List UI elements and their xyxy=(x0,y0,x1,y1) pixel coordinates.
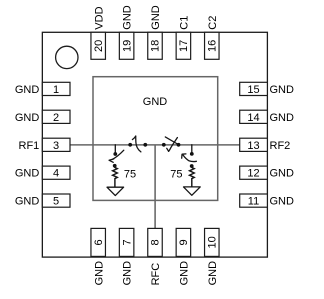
pad 15 xyxy=(240,82,268,96)
switch SW4 shunt (RF2 shunt arm) xyxy=(182,145,197,162)
resistor R2 75 ohm (right) xyxy=(190,166,195,187)
svg-text:GND: GND xyxy=(15,112,40,124)
svg-text:GND: GND xyxy=(270,196,295,208)
pad 17 xyxy=(176,32,191,59)
svg-text:20: 20 xyxy=(93,40,105,52)
pad 16 xyxy=(205,32,220,59)
svg-text:GND: GND xyxy=(15,196,40,208)
pad 8 xyxy=(148,228,163,256)
pad 3 xyxy=(42,138,70,152)
svg-text:GND: GND xyxy=(207,261,219,286)
svg-text:13: 13 xyxy=(247,140,259,152)
svg-text:19: 19 xyxy=(121,40,133,52)
node dot SW3 bottom xyxy=(113,164,117,168)
svg-text:8: 8 xyxy=(150,239,162,245)
ground GND1 (left) xyxy=(107,187,124,195)
svg-text:VDD: VDD xyxy=(93,6,105,29)
switch SW1 series (RF1 arm) xyxy=(132,136,141,152)
pad 1 xyxy=(42,82,70,96)
svg-text:16: 16 xyxy=(207,40,219,52)
node dot SW2 right xyxy=(177,143,181,147)
svg-text:12: 12 xyxy=(247,168,259,180)
svg-text:14: 14 xyxy=(247,112,259,124)
node dot SW1 right xyxy=(143,143,147,147)
svg-text:18: 18 xyxy=(150,40,162,52)
package outline U1 (QFN-20 body) xyxy=(42,32,267,257)
svg-text:7: 7 xyxy=(121,239,133,245)
svg-text:75: 75 xyxy=(170,169,182,181)
node dot SW3 top xyxy=(113,152,117,156)
svg-text:GND: GND xyxy=(150,5,162,30)
svg-text:75: 75 xyxy=(124,169,136,181)
svg-text:17: 17 xyxy=(178,40,190,52)
svg-text:GND: GND xyxy=(15,84,40,96)
svg-text:C1: C1 xyxy=(179,16,191,30)
node dot SW4 top xyxy=(190,152,194,156)
pin 1 indicator circle xyxy=(56,46,78,68)
svg-text:GND: GND xyxy=(15,168,40,180)
pad 7 xyxy=(119,228,134,256)
svg-text:GND: GND xyxy=(270,168,295,180)
pad 6 xyxy=(91,228,106,256)
node dot SW4 bottom xyxy=(190,164,194,168)
pad 5 xyxy=(42,194,70,208)
svg-text:9: 9 xyxy=(178,239,190,245)
svg-text:5: 5 xyxy=(53,196,59,208)
svg-text:6: 6 xyxy=(93,239,105,245)
pad 2 xyxy=(42,110,70,124)
wire RF1 to RF2 (horizontal net) xyxy=(70,144,240,146)
pad 11 xyxy=(240,194,268,208)
switch SW3 shunt (RF1 shunt arm) xyxy=(109,145,124,163)
svg-text:1: 1 xyxy=(53,84,59,96)
resistor R1 75 ohm (left) xyxy=(113,166,118,187)
svg-text:RFC: RFC xyxy=(150,263,162,286)
switch SW2 series (RF2 arm) xyxy=(165,137,178,151)
node dot SW2 left xyxy=(162,143,166,147)
svg-text:GND: GND xyxy=(122,5,134,30)
svg-text:4: 4 xyxy=(53,168,59,180)
svg-text:3: 3 xyxy=(53,140,59,152)
pad 4 xyxy=(42,166,70,180)
pad 9 xyxy=(176,228,191,256)
svg-text:GND: GND xyxy=(270,84,295,96)
svg-text:GND: GND xyxy=(122,261,134,286)
svg-text:11: 11 xyxy=(248,196,259,208)
svg-text:15: 15 xyxy=(247,84,259,96)
svg-text:C2: C2 xyxy=(207,16,219,30)
svg-text:RF1: RF1 xyxy=(19,140,40,152)
pad 14 xyxy=(240,110,268,124)
svg-text:GND: GND xyxy=(93,261,105,286)
svg-text:10: 10 xyxy=(207,236,219,248)
ground paddle box xyxy=(93,77,218,201)
svg-text:GND: GND xyxy=(143,96,168,108)
wire RFC (vertical net to pad 8) xyxy=(154,145,156,229)
svg-text:2: 2 xyxy=(53,112,59,124)
pad 13 xyxy=(240,138,268,152)
pad 19 xyxy=(119,32,134,59)
pad 18 xyxy=(148,32,163,59)
ground GND2 (right) xyxy=(184,187,201,195)
pad 12 xyxy=(240,166,268,180)
pad 10 xyxy=(205,228,220,256)
node dot SW1 left xyxy=(128,143,132,147)
svg-text:GND: GND xyxy=(270,112,295,124)
pad 20 xyxy=(91,32,106,59)
svg-text:RF2: RF2 xyxy=(270,140,291,152)
svg-text:GND: GND xyxy=(179,261,191,286)
